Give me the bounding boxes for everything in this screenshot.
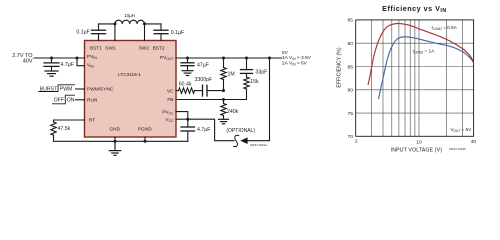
x axis tick labels	[355, 139, 476, 146]
resistor R 1M	[221, 58, 226, 91]
svg-text:2: 2	[355, 139, 358, 145]
svg-text:85: 85	[348, 64, 354, 70]
node VCC junction	[186, 118, 189, 121]
resistor R RT 47.5k	[51, 122, 56, 135]
node GND	[114, 140, 117, 143]
wire GND stub	[114, 137, 116, 141]
svg-text:Efficiency vs VIN: Efficiency vs VIN	[382, 4, 447, 14]
svg-text:0.1µF: 0.1µF	[171, 30, 184, 36]
svg-text:2A VIN > 6V: 2A VIN > 6V	[282, 61, 308, 67]
wire VIN branch	[77, 58, 85, 66]
svg-text:47µF: 47µF	[197, 62, 209, 68]
svg-text:33pF: 33pF	[256, 69, 268, 75]
curve ILOAD 0.5A red	[368, 24, 474, 86]
curve ILOAD 1A blue	[379, 37, 474, 99]
label input voltage	[12, 53, 33, 64]
wire SW2 stub	[144, 24, 146, 41]
node VC junction	[222, 89, 225, 92]
node 1M top	[222, 57, 225, 60]
switch optional squiggle arrow	[234, 135, 248, 146]
resistor R 15k	[244, 77, 249, 100]
resistor R 240k	[221, 100, 226, 119]
wire input rail	[34, 57, 85, 59]
svg-text:1A VIN > 3.6V: 1A VIN > 3.6V	[282, 55, 312, 61]
capacitor CVCC 4.7uF	[181, 119, 195, 141]
capacitor COUT 47uF	[181, 58, 194, 71]
wire RUN	[76, 99, 85, 101]
wire SW2 to BST2 cap	[145, 23, 162, 25]
svg-text:EFFICIENCY (%): EFFICIENCY (%)	[336, 47, 342, 88]
ground main	[109, 141, 120, 155]
node SW1	[113, 22, 116, 25]
svg-text:10: 10	[416, 140, 422, 146]
y axis tick labels	[348, 18, 354, 140]
svg-text:ON: ON	[67, 97, 75, 103]
wire PWM/SYNC	[76, 88, 85, 90]
chart efficiency vs VIN	[336, 4, 476, 153]
node 33pF top	[245, 57, 248, 60]
op-amp U1 LTC3115-1	[85, 41, 177, 138]
svg-text:0.1µF: 0.1µF	[76, 30, 89, 36]
wire ground rail	[54, 140, 188, 142]
svg-text:4.7µF: 4.7µF	[61, 62, 74, 68]
resistor R 60.4k	[179, 88, 195, 93]
svg-text:10µH: 10µH	[124, 13, 135, 18]
svg-text:60.4k: 60.4k	[179, 82, 192, 88]
ground input	[45, 71, 58, 76]
svg-text:3300pF: 3300pF	[195, 77, 213, 83]
wire PGND stub	[144, 137, 146, 141]
svg-text:GND: GND	[109, 127, 120, 133]
wire 60.4k to 3300pF	[195, 90, 203, 92]
wire 47.5k to rail	[53, 135, 55, 141]
svg-text:LTC3115-1: LTC3115-1	[118, 72, 141, 77]
IC pin labels	[87, 46, 174, 133]
capacitor C1 0.1uF BST1	[92, 24, 106, 41]
chart gridlines	[356, 20, 474, 136]
svg-text:95: 95	[348, 18, 354, 24]
inductor L1 10uH	[115, 20, 145, 24]
wire optional right segment	[248, 58, 270, 141]
node PVIN/VIN junction	[76, 57, 79, 60]
chart plot border	[356, 20, 474, 136]
capacitor C2 0.1uF BST2	[154, 24, 168, 41]
svg-text:FB: FB	[167, 97, 173, 103]
svg-text:PWM/SYNC: PWM/SYNC	[87, 87, 114, 93]
wire optional link	[188, 119, 234, 141]
wire RT	[54, 120, 85, 122]
svg-text:SW2: SW2	[139, 46, 150, 52]
svg-text:40: 40	[471, 139, 477, 145]
svg-text:PWM: PWM	[60, 86, 72, 92]
svg-text:BST2: BST2	[153, 46, 165, 52]
node PGND	[144, 140, 147, 143]
svg-text:1M: 1M	[228, 71, 235, 77]
wire VC	[176, 90, 179, 92]
svg-text:BURST: BURST	[40, 86, 57, 92]
wire BST1 cap to SW1	[99, 23, 115, 25]
svg-text:PGND: PGND	[138, 127, 152, 133]
capacitor C 33pF	[241, 58, 253, 77]
svg-text:70: 70	[348, 134, 354, 140]
svg-text:90: 90	[348, 41, 354, 47]
svg-text:VC: VC	[167, 88, 174, 94]
svg-text:BST1: BST1	[90, 46, 102, 52]
svg-text:4.7µF: 4.7µF	[197, 127, 210, 133]
wire SW1 stub	[114, 24, 116, 41]
node SW2	[143, 22, 146, 25]
ground 240k	[219, 119, 229, 124]
svg-text:31151 TA01b: 31151 TA01b	[449, 147, 466, 151]
wire FB	[176, 99, 247, 101]
svg-text:OFF: OFF	[54, 97, 64, 103]
svg-text:40V: 40V	[23, 58, 33, 64]
capacitor CIN 4.7uF	[44, 58, 59, 71]
svg-text:47.5k: 47.5k	[58, 126, 71, 132]
svg-text:75: 75	[348, 111, 354, 117]
svg-text:(OPTIONAL): (OPTIONAL)	[226, 128, 255, 134]
svg-text:15k: 15k	[250, 79, 259, 85]
svg-text:31151 TA01a: 31151 TA01a	[250, 143, 267, 147]
node COUT	[186, 57, 189, 60]
svg-text:INPUT VOLTAGE (V): INPUT VOLTAGE (V)	[391, 147, 443, 153]
switch BURST/PWM selector	[39, 85, 75, 92]
wire VCC	[176, 118, 188, 120]
switch OFF/ON selector	[53, 95, 75, 104]
capacitor C 3300pF	[203, 85, 208, 96]
node FB junction	[222, 98, 225, 101]
svg-text:SW1: SW1	[105, 46, 116, 52]
wire output rail	[176, 57, 282, 59]
svg-text:RT: RT	[89, 118, 95, 124]
svg-text:80: 80	[348, 88, 354, 94]
wire 3300pF to FB node	[207, 90, 224, 92]
ground COUT	[182, 71, 193, 76]
svg-text:RUN: RUN	[87, 98, 98, 104]
node input cap junction	[50, 57, 53, 60]
wire PVCC	[176, 112, 188, 120]
node riser top	[268, 57, 271, 60]
svg-text:240k: 240k	[227, 109, 239, 115]
